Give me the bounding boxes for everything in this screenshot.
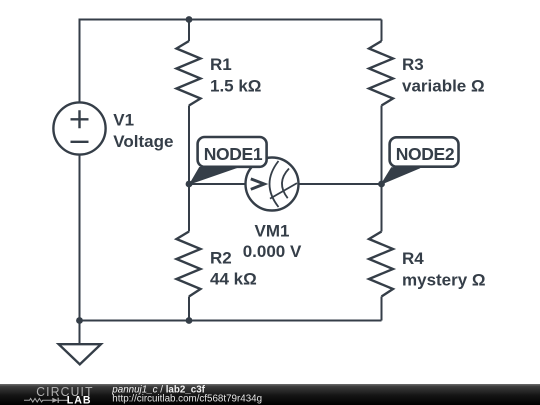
- logo resistor-diode symbol: [24, 398, 68, 403]
- wire left vertical upper: [79, 19, 81, 103]
- svg-text:R2: R2: [210, 249, 232, 268]
- svg-text:LAB: LAB: [67, 395, 92, 405]
- wire voltmeter to node2: [299, 183, 382, 185]
- svg-text:variable Ω: variable Ω: [402, 77, 485, 96]
- wire left vertical lower: [79, 155, 81, 321]
- footer bar: [0, 384, 540, 405]
- node NODE2 callout pointer: [382, 168, 421, 184]
- svg-text:http://circuitlab.com/cf568t79: http://circuitlab.com/cf568t79r434g: [112, 394, 262, 405]
- node NODE1 callout box: [198, 137, 267, 167]
- wire middle branch mid: [188, 106, 190, 185]
- svg-text:mystery Ω: mystery Ω: [402, 270, 486, 289]
- svg-text:R1: R1: [210, 55, 232, 74]
- node NODE2 callout box: [390, 137, 459, 166]
- wire middle branch top: [188, 20, 190, 42]
- junction dot top: [186, 16, 193, 23]
- ground: [59, 321, 101, 365]
- wire bottom horizontal: [80, 320, 382, 322]
- wire right branch top: [381, 20, 383, 42]
- svg-text:NODE2: NODE2: [396, 144, 455, 164]
- wire top horizontal: [80, 19, 382, 21]
- voltage source V1: [53, 102, 105, 154]
- wire node1 to voltmeter: [189, 183, 246, 185]
- junction node1 dot: [186, 181, 193, 188]
- svg-text:44 kΩ: 44 kΩ: [210, 269, 257, 288]
- junction node2 dot: [378, 181, 385, 188]
- svg-text:VM1: VM1: [255, 221, 290, 240]
- resistor R3: [369, 41, 393, 106]
- wire middle branch bottom: [188, 297, 190, 321]
- svg-text:NODE1: NODE1: [204, 144, 263, 164]
- svg-text:R4: R4: [402, 249, 424, 268]
- node NODE1 callout pointer: [190, 168, 237, 184]
- svg-text:V1: V1: [113, 110, 134, 129]
- svg-text:Voltage: Voltage: [113, 132, 173, 151]
- voltmeter VM1: [246, 158, 299, 211]
- wire right branch between node and R4: [381, 184, 383, 232]
- resistor R1: [177, 41, 201, 106]
- resistor R2: [177, 232, 201, 297]
- svg-text:1.5 kΩ: 1.5 kΩ: [210, 76, 261, 95]
- resistor R4: [369, 232, 393, 297]
- wire right branch mid: [381, 106, 383, 185]
- wire right branch bottom: [381, 297, 383, 321]
- svg-text:R3: R3: [402, 55, 424, 74]
- wire middle branch between node and R2: [188, 184, 190, 232]
- junction dot bottom middle: [186, 317, 193, 324]
- junction dot bottom left: [76, 317, 83, 324]
- svg-text:0.000 V: 0.000 V: [243, 242, 302, 261]
